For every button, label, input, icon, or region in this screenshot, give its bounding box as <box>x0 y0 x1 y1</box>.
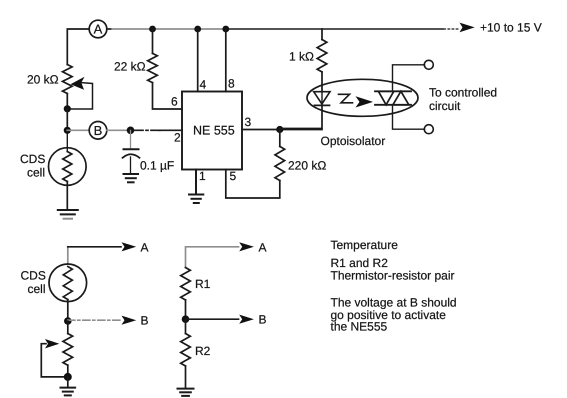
wire pin 6 lead from 22k bottom into NE555 <box>153 83 183 109</box>
svg-text:22 kΩ: 22 kΩ <box>114 60 146 74</box>
svg-text:220 kΩ: 220 kΩ <box>288 159 326 173</box>
wire bottom-left branch to A <box>67 247 69 264</box>
svg-text:B: B <box>94 123 103 138</box>
svg-text:0.1 µF: 0.1 µF <box>140 159 174 173</box>
junction dot pin8 <box>222 26 229 33</box>
ground capacitor <box>124 174 139 182</box>
svg-text:5: 5 <box>230 169 237 183</box>
wire between pot junction and node B junction <box>66 109 68 131</box>
svg-text:B: B <box>141 314 149 328</box>
wire R2 bottom to ground <box>185 366 187 388</box>
svg-text:A: A <box>94 22 103 37</box>
IC U1 NE 555 <box>182 92 242 170</box>
svg-text:NE 555: NE 555 <box>193 124 235 138</box>
svg-text:cell: cell <box>28 282 46 296</box>
junction dot pot wiper <box>64 105 71 112</box>
power +10 to 15 V <box>460 21 542 35</box>
svg-text:2: 2 <box>174 131 181 145</box>
ground CDS cell <box>58 210 78 219</box>
node A <box>89 20 107 38</box>
resistor 1 kOhm <box>289 40 327 73</box>
terminal top circle <box>424 60 433 69</box>
svg-text:3: 3 <box>245 115 252 129</box>
resistor R1 <box>181 268 211 301</box>
svg-text:A: A <box>259 240 267 254</box>
svg-text:4: 4 <box>200 78 207 92</box>
wire pin 5 to 220k bottom <box>226 170 280 199</box>
svg-text:To controlled: To controlled <box>429 86 497 100</box>
wire 1k bottom to LED anode <box>321 72 323 92</box>
wire junction to R2 top <box>185 319 187 333</box>
wire CDS cell to ground <box>66 182 68 210</box>
svg-text:R1: R1 <box>195 277 211 291</box>
wire pin 1 lead <box>195 170 197 194</box>
wire pin 2 lead <box>134 129 160 131</box>
wire pin 4 lead <box>197 29 199 92</box>
potentiometer (bottom-left) <box>41 334 72 377</box>
wire junction to node B <box>67 129 89 131</box>
ground middle <box>178 389 194 396</box>
junction dot middle <box>182 315 190 323</box>
wire junction to ground <box>67 377 69 387</box>
wire 220k top lead <box>279 130 281 147</box>
wire pin 8 lead <box>225 29 227 92</box>
svg-text:+10 to 15 V: +10 to 15 V <box>480 21 542 35</box>
svg-text:1 kΩ: 1 kΩ <box>289 50 314 64</box>
junction dot B (bottom-left) <box>64 317 72 325</box>
LED inside optocoupler <box>314 92 330 106</box>
wire middle branch to A <box>186 247 239 268</box>
resistor 22 kOhm <box>114 53 157 82</box>
text To controlled circuit <box>429 86 497 114</box>
terminal bottom circle <box>424 125 433 134</box>
svg-text:20 kΩ: 20 kΩ <box>27 73 59 87</box>
svg-text:the NE555: the NE555 <box>331 319 388 333</box>
svg-text:1: 1 <box>199 169 206 183</box>
svg-text:Optoisolator: Optoisolator <box>321 134 386 148</box>
resistor R2 <box>181 334 211 367</box>
svg-text:CDS: CDS <box>20 152 45 166</box>
wire 22k top lead <box>152 29 154 53</box>
photoresistor CDS cell (bottom circuit) <box>21 264 87 302</box>
junction dot pot bottom <box>64 373 72 381</box>
wire pin 3 lead <box>242 129 322 131</box>
junction dot 22k top <box>149 26 156 33</box>
arrow A (middle) <box>239 240 266 254</box>
wire LED cathode down to pin3 node <box>280 105 322 128</box>
svg-text:Temperature: Temperature <box>331 238 399 252</box>
wire junction to pot top <box>67 321 69 334</box>
svg-text:circuit: circuit <box>429 99 461 113</box>
ground bottom-left <box>61 388 76 396</box>
wire triac terminals to output terminals <box>393 65 425 129</box>
arrow A (bottom-left) <box>122 240 149 254</box>
resistor 220 kOhm <box>275 146 326 180</box>
svg-text:6: 6 <box>171 95 178 109</box>
wire R1 bottom to junction <box>185 300 187 319</box>
wire pot bottom to junction <box>67 365 69 377</box>
photoresistor CDS cell (top circuit) <box>20 134 86 185</box>
light arrow LED to triac <box>339 94 374 107</box>
svg-text:Thermistor-resistor pair: Thermistor-resistor pair <box>331 268 455 282</box>
svg-text:B: B <box>259 313 267 327</box>
wire top rail faded segment A to pin8 junction <box>107 28 111 30</box>
wire top rail to supply arrow <box>224 28 443 30</box>
arrow B (middle) <box>186 313 267 327</box>
node B <box>89 122 107 140</box>
ground pin 1 <box>189 195 203 204</box>
svg-text:A: A <box>141 240 149 254</box>
arrow B (bottom-left) <box>68 314 149 328</box>
junction dot left of B <box>64 127 71 134</box>
wire CDS bottom to junction <box>67 300 69 322</box>
junction dot capacitor <box>127 127 135 135</box>
wire node B to capacitor junction <box>107 129 131 131</box>
svg-text:R2: R2 <box>195 344 211 358</box>
svg-text:8: 8 <box>228 77 235 91</box>
potentiometer 20 kOhm <box>27 65 93 110</box>
wire 1k top lead from rail <box>321 29 323 40</box>
triac inside optocoupler <box>375 91 411 105</box>
svg-text:CDS: CDS <box>21 269 46 283</box>
svg-text:cell: cell <box>27 166 45 180</box>
wire top-left branch from node A down to potentiometer <box>67 29 89 65</box>
capacitor 0.1 uF <box>123 130 175 173</box>
junction dot pin4 <box>194 26 201 33</box>
junction dot pin3/220k <box>276 126 283 133</box>
optocoupler ellipse <box>307 79 418 116</box>
